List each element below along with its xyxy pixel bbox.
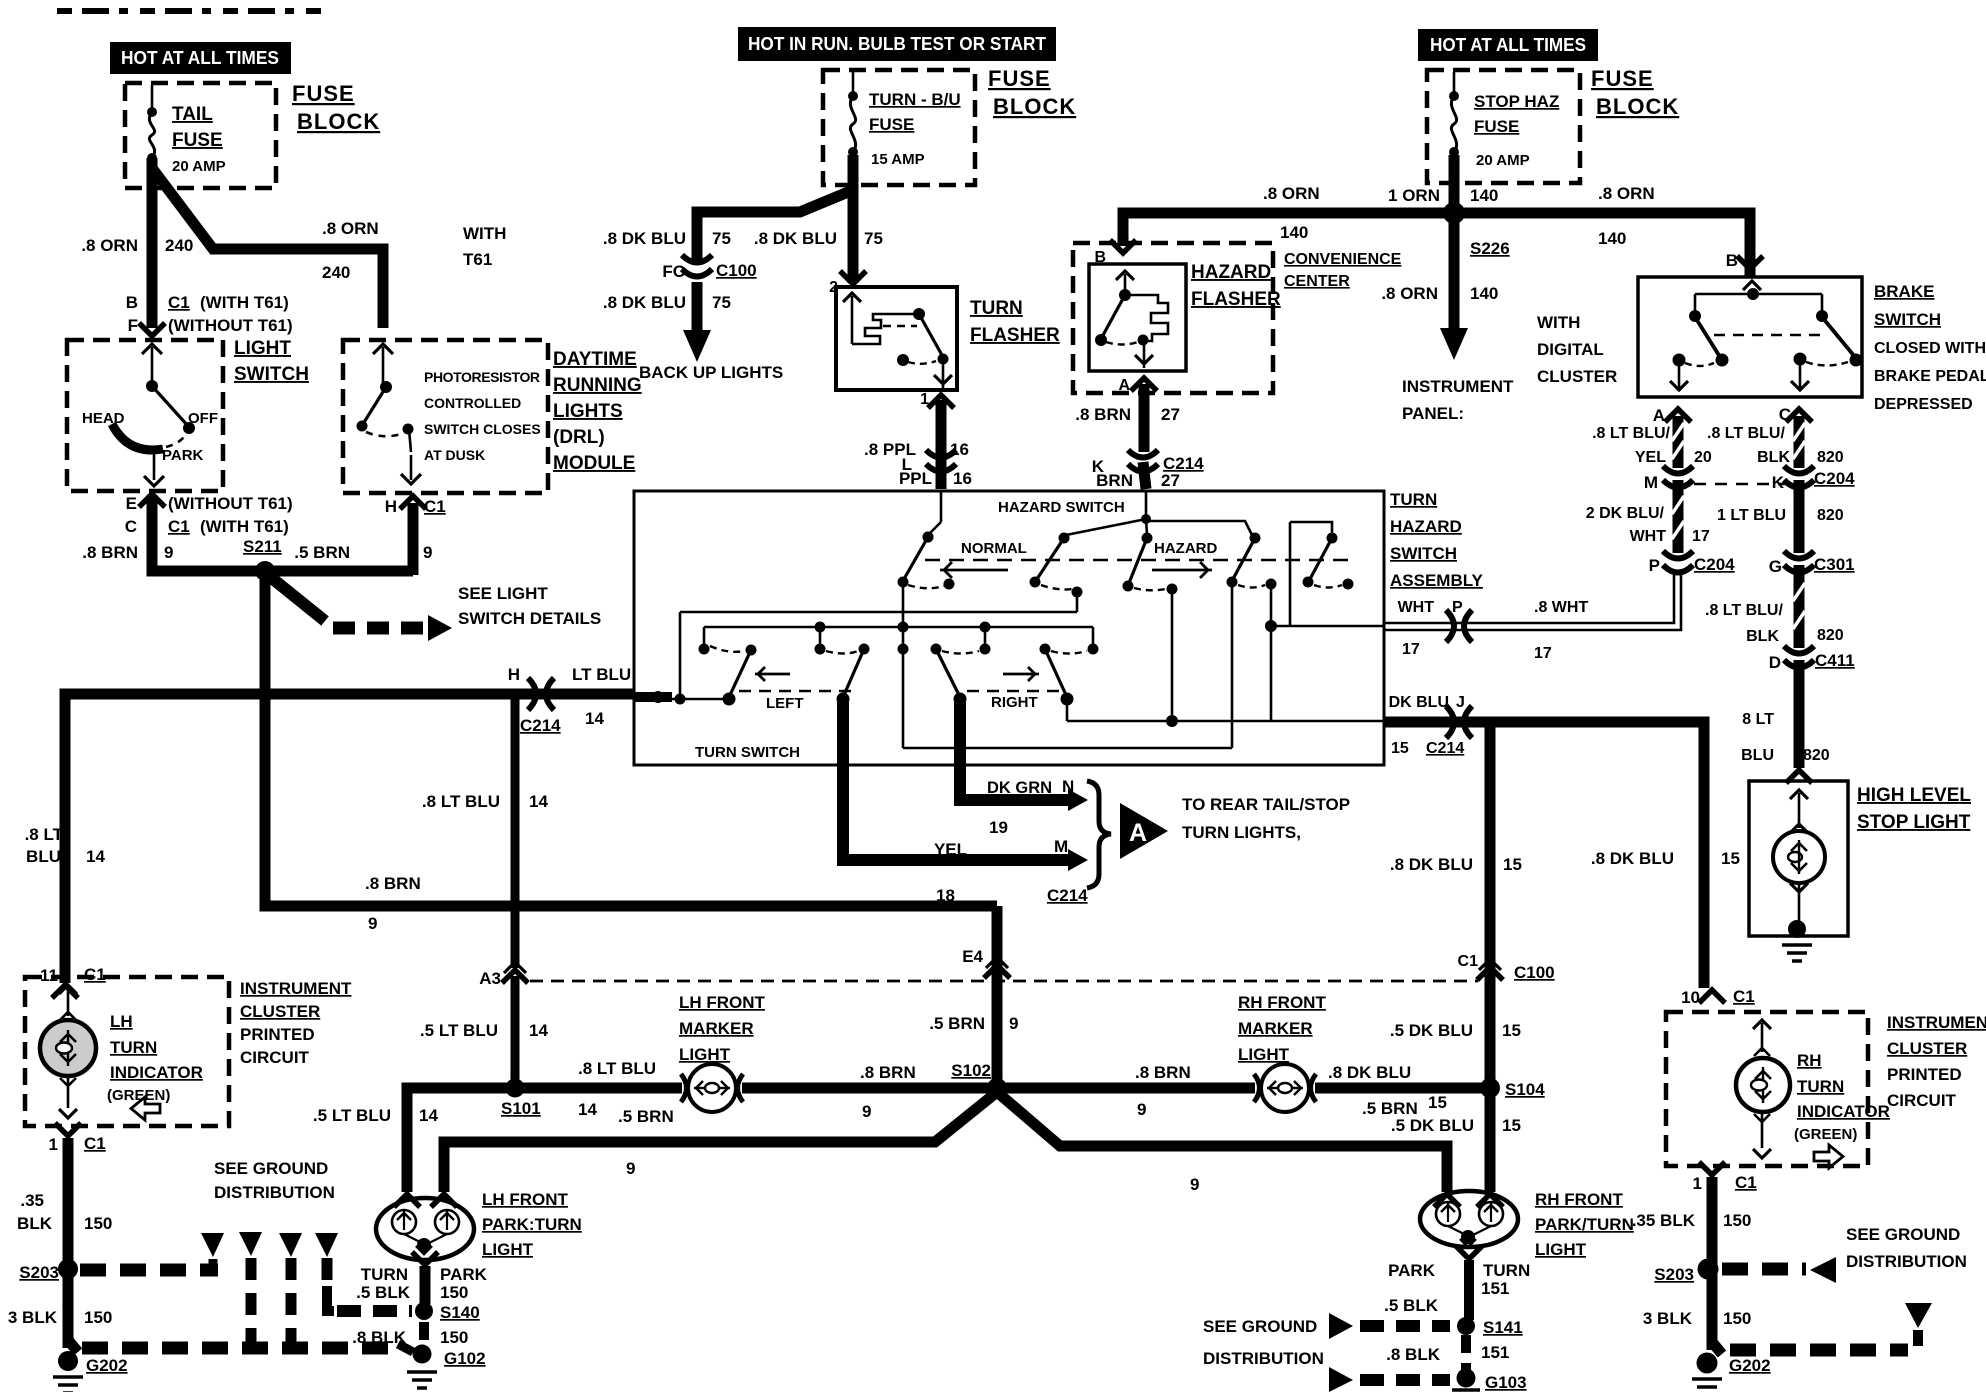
svg-text:LIGHT: LIGHT (1535, 1240, 1587, 1259)
svg-text:LIGHT: LIGHT (1238, 1045, 1290, 1064)
label HAZARD SWITCH (998, 499, 1125, 516)
wire .8 DK BLU 75 fuse to turn flasher (754, 155, 883, 283)
connector C1 pin 11 at LH turn indicator (40, 965, 106, 998)
labels .8 DK BLU 15 right leg (1591, 849, 1740, 868)
svg-text:C1: C1 (1735, 1173, 1757, 1192)
wire WHT inside switch to right edge (1271, 625, 1384, 628)
svg-text:1: 1 (920, 391, 929, 408)
svg-text:G202: G202 (1729, 1356, 1771, 1375)
wire 1 LT BLU 820 K to G (1717, 480, 1844, 553)
svg-text:C301: C301 (1814, 555, 1855, 574)
ground distribution triangle 4 with riser (315, 1233, 338, 1311)
fuse block 3 dashed box (1427, 70, 1580, 183)
ground G102 (398, 1344, 486, 1388)
svg-text:HOT AT ALL TIMES: HOT AT ALL TIMES (1430, 35, 1586, 55)
label HOT IN RUN BULB TEST OR START banner (738, 27, 1056, 61)
svg-text:3 BLK: 3 BLK (8, 1308, 58, 1327)
fuse block 1 dashed box (125, 83, 276, 188)
svg-text:TURN SWITCH: TURN SWITCH (695, 744, 800, 761)
svg-text:HIGH LEVEL: HIGH LEVEL (1857, 785, 1971, 806)
connector C1 pin 10 at RH indicator (1681, 987, 1755, 1007)
svg-text:BLOCK: BLOCK (1596, 94, 1679, 119)
fuse STOP HAZ FUSE 20 AMP (1449, 72, 1559, 169)
svg-text:9: 9 (1137, 1100, 1146, 1119)
hazard switch blade 1 (898, 532, 955, 590)
wire BRN 27 into hazard switch (1143, 462, 1146, 489)
svg-text:150: 150 (84, 1308, 112, 1327)
wire .8 DK BLU branch to C100 (1390, 722, 1522, 1086)
svg-text:.8 DK BLU: .8 DK BLU (754, 229, 837, 248)
RH front park turn light (1420, 1191, 1518, 1247)
svg-text:PPL: PPL (899, 469, 932, 488)
svg-text:DK BLU: DK BLU (1389, 694, 1449, 711)
svg-text:INSTRUMENT: INSTRUMENT (1887, 1013, 1986, 1032)
ground distribution triangle 3 with riser (279, 1233, 302, 1350)
svg-text:PARK: PARK (162, 447, 204, 464)
svg-text:.8 DK BLU: .8 DK BLU (1390, 855, 1473, 874)
turn flasher box (836, 287, 957, 390)
svg-text:9: 9 (423, 543, 432, 562)
svg-text:SEE LIGHT: SEE LIGHT (458, 584, 548, 603)
svg-text:P: P (1452, 599, 1463, 616)
svg-text:.8 LT BLU: .8 LT BLU (578, 1059, 656, 1078)
svg-text:(WITH T61): (WITH T61) (200, 293, 289, 312)
label CONVENIENCE CENTER (1284, 251, 1402, 290)
svg-text:D: D (1769, 653, 1781, 672)
svg-text:G102: G102 (444, 1349, 486, 1368)
svg-text:75: 75 (712, 229, 731, 248)
turn switch blade dk blu (1045, 649, 1074, 706)
light switch internals HEAD OFF PARK (82, 344, 218, 486)
svg-text:20 AMP: 20 AMP (1476, 152, 1530, 169)
connector pin 2 at turn flasher (829, 271, 866, 296)
svg-text:C100: C100 (716, 261, 757, 280)
svg-text:PRINTED: PRINTED (1887, 1065, 1962, 1084)
svg-text:DISTRIBUTION: DISTRIBUTION (1846, 1252, 1967, 1271)
svg-text:C204: C204 (1814, 469, 1855, 488)
dashed connector line C100 (530, 980, 1478, 983)
dashed ground run G202 (left) (82, 1342, 400, 1355)
svg-text:RUNNING: RUNNING (553, 375, 642, 396)
svg-text:HAZARD: HAZARD (1191, 262, 1271, 283)
svg-text:15: 15 (1502, 1021, 1521, 1040)
svg-text:C214: C214 (1426, 740, 1464, 757)
svg-text:H: H (508, 665, 520, 684)
svg-text:T61: T61 (463, 250, 492, 269)
svg-text:27: 27 (1161, 405, 1180, 424)
wire YEL 18 to rear (843, 702, 1088, 905)
svg-text:15: 15 (1502, 1116, 1521, 1135)
svg-text:C214: C214 (1047, 886, 1088, 905)
svg-text:CLOSED WITH: CLOSED WITH (1874, 340, 1986, 357)
wire .5 BRN .5 DK BLU 15 S102 to RH park light (997, 1092, 1447, 1194)
dashed link M to K (1694, 483, 1785, 486)
LH front marker light bulb (681, 1064, 743, 1112)
svg-text:.35: .35 (20, 1191, 44, 1210)
svg-text:M: M (1054, 837, 1068, 856)
svg-text:.8 BRN: .8 BRN (1135, 1063, 1191, 1082)
label INSTRUMENT CLUSTER PRINTED CIRCUIT (right) (1887, 1013, 1986, 1110)
svg-text:DISTRIBUTION: DISTRIBUTION (214, 1183, 335, 1202)
svg-text:(WITHOUT T61): (WITHOUT T61) (168, 316, 293, 335)
svg-text:FUSE: FUSE (988, 66, 1051, 91)
wire 1 ORN 140 fuse to S226 (1388, 155, 1498, 210)
svg-text:INSTRUMENT: INSTRUMENT (1402, 377, 1514, 396)
svg-text:(WITH T61): (WITH T61) (200, 517, 289, 536)
turn switch internal link wire (903, 583, 1232, 748)
svg-text:N: N (1062, 777, 1074, 796)
svg-text:.5 BRN: .5 BRN (618, 1107, 674, 1126)
connector C100 pin FO (662, 255, 756, 281)
connector C1 pin E/C below light switch (125, 494, 293, 536)
wire .8 LT BLU/BLK 820 G to D (1705, 565, 1844, 648)
svg-text:J: J (1456, 694, 1465, 711)
svg-text:LIGHT: LIGHT (679, 1045, 731, 1064)
svg-text:INDICATOR: INDICATOR (110, 1063, 203, 1082)
svg-text:.35 BLK: .35 BLK (1632, 1211, 1696, 1230)
svg-text:TURN: TURN (1483, 1261, 1530, 1280)
svg-text:S140: S140 (440, 1303, 480, 1322)
svg-text:14: 14 (419, 1106, 438, 1125)
svg-text:WHT: WHT (1630, 528, 1667, 545)
svg-text:INDICATOR: INDICATOR (1797, 1102, 1890, 1121)
svg-text:820: 820 (1817, 507, 1844, 524)
svg-text:3 BLK: 3 BLK (1643, 1309, 1693, 1328)
svg-text:INSTRUMENT: INSTRUMENT (240, 979, 352, 998)
svg-text:.8 BRN: .8 BRN (860, 1063, 916, 1082)
svg-text:HAZARD: HAZARD (1154, 540, 1217, 557)
arrow A to rear tail stop turn lights (1120, 803, 1168, 859)
connector C204 pin M (1644, 466, 1693, 492)
svg-text:MARKER: MARKER (679, 1019, 754, 1038)
connector C204 pin K (1772, 466, 1855, 492)
svg-text:P: P (1649, 556, 1660, 575)
svg-text:LT BLU: LT BLU (572, 665, 631, 684)
connector pin C below brake switch (1779, 405, 1812, 424)
fuse TURN B/U FUSE 15 AMP (848, 72, 961, 168)
wire .8 DK BLU 15 RH marker to S104 (1315, 1063, 1490, 1112)
splice S101 (501, 1079, 541, 1119)
svg-text:B: B (126, 293, 138, 312)
svg-text:HEAD: HEAD (82, 410, 125, 427)
label INSTRUMENT PANEL (1402, 377, 1514, 423)
dashed run into S141 with arrow (1329, 1313, 1450, 1339)
svg-text:LEFT: LEFT (766, 695, 804, 712)
svg-text:WITH: WITH (463, 224, 506, 243)
connector C301 pin G (1769, 551, 1855, 576)
svg-text:TURN LIGHTS,: TURN LIGHTS, (1182, 823, 1301, 842)
ground distribution triangle 1 (201, 1233, 224, 1257)
ground G202 (left) (53, 1340, 128, 1392)
connector on .8 WHT wire (1398, 599, 1589, 662)
svg-text:FUSE: FUSE (292, 81, 355, 106)
LH turn indicator dashed box (25, 977, 229, 1126)
svg-text:820: 820 (1803, 747, 1830, 764)
svg-text:.8 LT BLU/: .8 LT BLU/ (1705, 602, 1783, 619)
labels .8 LT BLU 14 left column (25, 825, 106, 866)
svg-text:FUSE: FUSE (1474, 117, 1519, 136)
LH turn indicator bulb (40, 985, 96, 1118)
dashed arrow SEE LIGHT SWITCH DETAILS (268, 575, 601, 641)
wire 2 DK BLU/WHT 17 M to P (1586, 480, 1710, 553)
svg-text:TO REAR TAIL/STOP: TO REAR TAIL/STOP (1182, 795, 1350, 814)
label HAZARD FLASHER (1191, 262, 1281, 310)
svg-text:RIGHT: RIGHT (991, 694, 1038, 711)
wire .5 BLK to S141 (1384, 1260, 1469, 1320)
svg-text:.5 DK BLU: .5 DK BLU (1390, 1021, 1473, 1040)
label TURN SWITCH (695, 744, 800, 761)
connector C214 pin J (1389, 694, 1472, 757)
connector pin 1 below turn flasher (920, 391, 954, 408)
svg-text:.8 DK BLU: .8 DK BLU (1328, 1063, 1411, 1082)
wire .8 ORN 140 S226 to instrument panel arrow (1381, 216, 1498, 360)
hazard switch blade 2 (1030, 533, 1083, 598)
svg-text:1: 1 (1693, 1174, 1702, 1193)
svg-text:PHOTORESISTOR: PHOTORESISTOR (424, 369, 540, 385)
svg-text:(WITHOUT T61): (WITHOUT T61) (168, 494, 293, 513)
svg-text:.8 LT BLU: .8 LT BLU (422, 792, 500, 811)
wire LT BLU 14 hazard switch to left column (65, 694, 634, 983)
svg-text:9: 9 (368, 914, 377, 933)
connector C100 pin E4 (962, 947, 1010, 978)
turn switch blade yel (837, 649, 865, 706)
svg-text:C: C (1779, 405, 1791, 424)
svg-text:FLASHER: FLASHER (1191, 289, 1281, 310)
hazard switch blade 3 (1123, 533, 1178, 595)
label RH FRONT PARK TURN LIGHT (1535, 1190, 1634, 1259)
svg-text:1: 1 (49, 1135, 58, 1154)
svg-text:15: 15 (1721, 849, 1740, 868)
svg-text:14: 14 (529, 1021, 548, 1040)
label SEE GROUND DISTRIBUTION (middle) (1203, 1317, 1324, 1368)
hazard switch fixed contact drops (1077, 584, 1277, 727)
connector C411 pin D (1769, 646, 1855, 672)
wire .8 BRN 9 S102 to RH marker (997, 1063, 1255, 1119)
svg-text:S203: S203 (1654, 1265, 1694, 1284)
svg-text:M: M (1644, 473, 1658, 492)
RH front marker light bulb (1254, 1064, 1316, 1112)
svg-text:C: C (125, 517, 137, 536)
label LH FRONT MARKER LIGHT (679, 993, 766, 1064)
svg-text:HAZARD: HAZARD (1390, 517, 1462, 536)
wire DK GRN 19 to rear (960, 702, 1088, 837)
wire .8 ORN 140 S226 to brake switch (1460, 184, 1750, 278)
svg-text:CONTROLLED: CONTROLLED (424, 395, 521, 411)
label RH TURN INDICATOR GREEN (1794, 1051, 1890, 1168)
svg-text:NORMAL: NORMAL (961, 540, 1027, 557)
LH front park turn light (376, 1198, 474, 1260)
hazard switch blade 5 (1290, 522, 1354, 626)
svg-text:.8 BRN: .8 BRN (82, 543, 138, 562)
turn switch dashed travel lines with LEFT RIGHT labels (739, 667, 1067, 712)
svg-text:8 LT: 8 LT (1742, 711, 1774, 728)
svg-text:CENTER: CENTER (1284, 273, 1350, 290)
wire .5 BRN 9 E4 to S102 (929, 906, 1018, 1086)
ground G103 (1452, 1369, 1527, 1392)
svg-text:C1: C1 (1458, 953, 1479, 970)
connector pin L on PPL wire (899, 450, 972, 488)
svg-text:DISTRIBUTION: DISTRIBUTION (1203, 1349, 1324, 1368)
connector C214 pin H (508, 665, 631, 735)
svg-text:150: 150 (440, 1328, 468, 1347)
svg-text:9: 9 (164, 543, 173, 562)
ground at stop light (1782, 920, 1812, 961)
svg-text:14: 14 (86, 847, 105, 866)
wire .5 LT BLU 14 S101 to LH park light (313, 1088, 515, 1192)
svg-text:HOT AT ALL TIMES: HOT AT ALL TIMES (121, 48, 279, 68)
splice S102 (951, 1061, 1007, 1098)
svg-text:S104: S104 (1505, 1080, 1545, 1099)
page-edge dashed remnant line (57, 8, 322, 14)
ground G202 (right) (1692, 1342, 1771, 1392)
svg-text:B: B (1726, 251, 1738, 270)
svg-text:TURN: TURN (1390, 490, 1437, 509)
svg-text:.8 ORN: .8 ORN (1598, 184, 1655, 203)
svg-text:9: 9 (862, 1102, 871, 1121)
svg-text:15: 15 (1391, 740, 1409, 757)
svg-text:140: 140 (1598, 229, 1626, 248)
wire .8 LT BLU/BLK 820 C to K (1707, 416, 1844, 468)
svg-text:C214: C214 (520, 716, 561, 735)
svg-text:MODULE: MODULE (553, 453, 635, 474)
svg-text:C1: C1 (84, 1134, 106, 1153)
wire .5 BRN 9 S102 to LH park light (444, 1092, 997, 1192)
RH turn indicator dashed box (1666, 1012, 1868, 1166)
wire .8 LT BLU 14 to A3 (422, 694, 549, 968)
brace to rear lights (1087, 781, 1111, 888)
svg-text:PARK/TURN: PARK/TURN (1535, 1215, 1634, 1234)
svg-text:MARKER: MARKER (1238, 1019, 1313, 1038)
connector C1 pin H below DRL module (385, 496, 446, 516)
svg-text:1 ORN: 1 ORN (1388, 186, 1440, 205)
svg-text:BRAKE: BRAKE (1874, 282, 1934, 301)
svg-text:TAIL: TAIL (172, 104, 213, 125)
svg-text:.5 LT BLU: .5 LT BLU (313, 1106, 391, 1125)
svg-text:75: 75 (712, 293, 731, 312)
svg-text:.8 ORN: .8 ORN (1263, 184, 1320, 203)
svg-text:FLASHER: FLASHER (970, 325, 1060, 346)
svg-text:G103: G103 (1485, 1373, 1527, 1392)
svg-text:.5 BLK: .5 BLK (1384, 1296, 1439, 1315)
svg-text:17: 17 (1692, 528, 1710, 545)
svg-text:F: F (128, 316, 138, 335)
svg-text:S141: S141 (1483, 1318, 1523, 1337)
connector pin B at brake switch (1737, 256, 1763, 269)
label TURN FLASHER (970, 298, 1060, 346)
svg-text:SEE GROUND: SEE GROUND (214, 1159, 328, 1178)
svg-text:LH FRONT: LH FRONT (482, 1190, 569, 1209)
svg-text:LH: LH (110, 1012, 133, 1031)
wire .8 BRN 9 S211 to E4 (265, 571, 997, 933)
svg-text:LIGHTS: LIGHTS (553, 401, 623, 422)
splice S226 (1443, 202, 1510, 258)
wire 3 BLK 150 to G202 right (1643, 1269, 1752, 1350)
svg-text:C1: C1 (1733, 987, 1755, 1006)
high level stop light box (1749, 781, 1848, 936)
svg-text:.8 BLK: .8 BLK (1386, 1345, 1441, 1364)
wire .5 LT BLU 14 A3 to S101 (420, 976, 549, 1086)
svg-text:SEE GROUND: SEE GROUND (1846, 1225, 1960, 1244)
svg-text:DEPRESSED: DEPRESSED (1874, 396, 1973, 413)
svg-text:10: 10 (1681, 988, 1700, 1007)
svg-text:FUSE: FUSE (869, 115, 914, 134)
connector pin A below brake switch (1653, 406, 1691, 425)
wire .8 WHT from C204 to hazard switch (1384, 575, 1681, 630)
svg-text:BLK: BLK (17, 1214, 53, 1233)
svg-text:CIRCUIT: CIRCUIT (240, 1048, 310, 1067)
high level stop light bulb (1773, 790, 1825, 924)
svg-text:.8 LT BLU/: .8 LT BLU/ (1592, 425, 1670, 442)
svg-text:151: 151 (1481, 1343, 1509, 1362)
svg-text:150: 150 (84, 1214, 112, 1233)
wire .8 DK BLU 75 branch to back up lights (603, 190, 853, 260)
label BRAKE SWITCH CLOSED WITH BRAKE PEDAL DEPRESSED (1874, 282, 1986, 413)
label FUSE BLOCK (middle) (988, 66, 1076, 119)
svg-text:.8 LT BLU/: .8 LT BLU/ (1707, 425, 1785, 442)
svg-text:.8 DK BLU: .8 DK BLU (603, 229, 686, 248)
svg-text:.5 BLK: .5 BLK (356, 1283, 411, 1302)
label HAZARD with right arrow (1152, 540, 1217, 578)
svg-text:TURN: TURN (970, 298, 1023, 319)
turn switch contact row (699, 644, 1099, 656)
svg-text:C1: C1 (84, 965, 106, 984)
svg-text:WITH: WITH (1537, 313, 1580, 332)
svg-text:.8 ORN: .8 ORN (322, 219, 379, 238)
dashed ground run from S203 (left) (80, 1259, 218, 1270)
svg-text:H: H (385, 497, 397, 516)
svg-text:.5 DK BLU: .5 DK BLU (1391, 1116, 1474, 1135)
wire DK BLU J hazard switch to right (1384, 722, 1704, 988)
svg-text:C100: C100 (1514, 963, 1555, 982)
svg-text:BLK: BLK (1757, 449, 1790, 466)
label HOT AT ALL TIMES banner (left) (110, 42, 291, 74)
svg-text:BLU: BLU (1741, 747, 1774, 764)
turn flasher internals (843, 293, 952, 388)
svg-text:9: 9 (1009, 1014, 1018, 1033)
hazard flasher internals (1095, 271, 1168, 368)
wire .8 BRN 9 LH marker to S102 (742, 1063, 997, 1121)
connector below RH park turn light (1388, 1246, 1530, 1298)
label HOT AT ALL TIMES banner (right) (1418, 29, 1598, 61)
svg-text:19: 19 (989, 818, 1008, 837)
label LH FRONT PARK TURN LIGHT (482, 1190, 582, 1259)
label SEE GROUND DISTRIBUTION (left) (214, 1159, 335, 1202)
svg-text:PARK: PARK (1388, 1261, 1436, 1280)
svg-text:TURN: TURN (361, 1265, 408, 1284)
splice S104 (1480, 1078, 1545, 1099)
svg-text:S102: S102 (951, 1061, 991, 1080)
svg-text:75: 75 (864, 229, 883, 248)
svg-text:150: 150 (440, 1283, 468, 1302)
hazard switch wire PPL entry (923, 491, 942, 543)
label RH FRONT MARKER LIGHT (1238, 993, 1326, 1064)
svg-text:SWITCH: SWITCH (1874, 310, 1941, 329)
turn switch left entry (634, 612, 1077, 705)
wire .8 ORN 140 S226 to hazard flasher (1123, 184, 1448, 246)
turn hazard switch assembly box (634, 491, 1384, 765)
svg-text:20: 20 (1694, 449, 1712, 466)
labels .5 DK BLU 15 above S104 (1390, 1021, 1521, 1040)
svg-text:A: A (1129, 819, 1147, 847)
label TURN HAZARD SWITCH ASSEMBLY (1390, 490, 1484, 590)
svg-text:HOT IN RUN. BULB TEST OR START: HOT IN RUN. BULB TEST OR START (748, 34, 1046, 54)
svg-text:240: 240 (165, 236, 193, 255)
svg-text:A: A (1118, 377, 1130, 394)
svg-text:C1: C1 (168, 517, 190, 536)
turn switch top bus (704, 622, 1093, 647)
svg-text:(DRL): (DRL) (553, 427, 605, 448)
svg-text:15: 15 (1503, 855, 1522, 874)
